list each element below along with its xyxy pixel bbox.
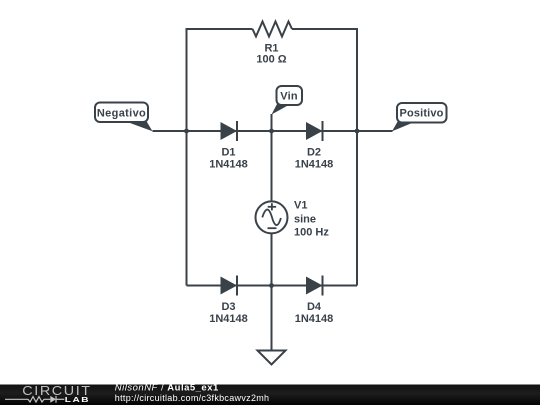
- wire top-left segment: [187, 28, 253, 30]
- wire center lower (from V1): [271, 234, 273, 286]
- svg-text:1N4148: 1N4148: [295, 313, 334, 325]
- svg-text:D2: D2: [307, 147, 321, 159]
- svg-text:sine: sine: [294, 214, 316, 226]
- svg-text:D3: D3: [221, 301, 235, 313]
- wire main horizontal: [153, 130, 393, 132]
- svg-text:LAB: LAB: [65, 395, 90, 404]
- resistor R1: [253, 22, 293, 37]
- diode D2: [306, 121, 323, 141]
- wire ground stem: [271, 286, 273, 351]
- diode D3: [221, 276, 238, 296]
- svg-text:Negativo: Negativo: [97, 108, 146, 120]
- wire bottom horizontal: [187, 285, 358, 287]
- svg-text:Positivo: Positivo: [400, 108, 444, 120]
- logo symbol line: [5, 396, 64, 403]
- node Vin flag: [272, 86, 303, 115]
- wire Vin stub: [271, 114, 273, 131]
- svg-text:1N4148: 1N4148: [209, 313, 248, 325]
- node junction Vin: [269, 129, 274, 134]
- svg-text:100 Hz: 100 Hz: [294, 227, 329, 239]
- svg-text:1N4148: 1N4148: [295, 159, 334, 171]
- svg-text:D4: D4: [307, 301, 322, 313]
- svg-text:1N4148: 1N4148: [209, 159, 248, 171]
- svg-text:100 Ω: 100 Ω: [256, 54, 286, 66]
- node junction right: [355, 129, 360, 134]
- voltage source V1: [256, 201, 288, 233]
- node junction left: [184, 129, 189, 134]
- wire right vertical: [356, 28, 358, 286]
- logo diode symbol: [50, 396, 56, 403]
- ground: [258, 351, 286, 365]
- svg-text:Vin: Vin: [280, 91, 298, 103]
- node Negativo flag: [95, 103, 153, 132]
- svg-text:NilsonNF / Aula5_ex1: NilsonNF / Aula5_ex1: [115, 383, 219, 394]
- node Positivo flag: [392, 103, 447, 131]
- wire left vertical: [186, 28, 188, 286]
- node junction bottom: [269, 283, 274, 288]
- wire center upper (to V1): [271, 131, 273, 201]
- diode D1: [221, 121, 238, 141]
- wire top-right segment: [292, 28, 357, 30]
- svg-text:http://circuitlab.com/c3fkbcaw: http://circuitlab.com/c3fkbcawvz2mh: [115, 393, 270, 403]
- diode D4: [306, 276, 323, 296]
- svg-text:V1: V1: [294, 200, 307, 212]
- svg-text:D1: D1: [221, 147, 235, 159]
